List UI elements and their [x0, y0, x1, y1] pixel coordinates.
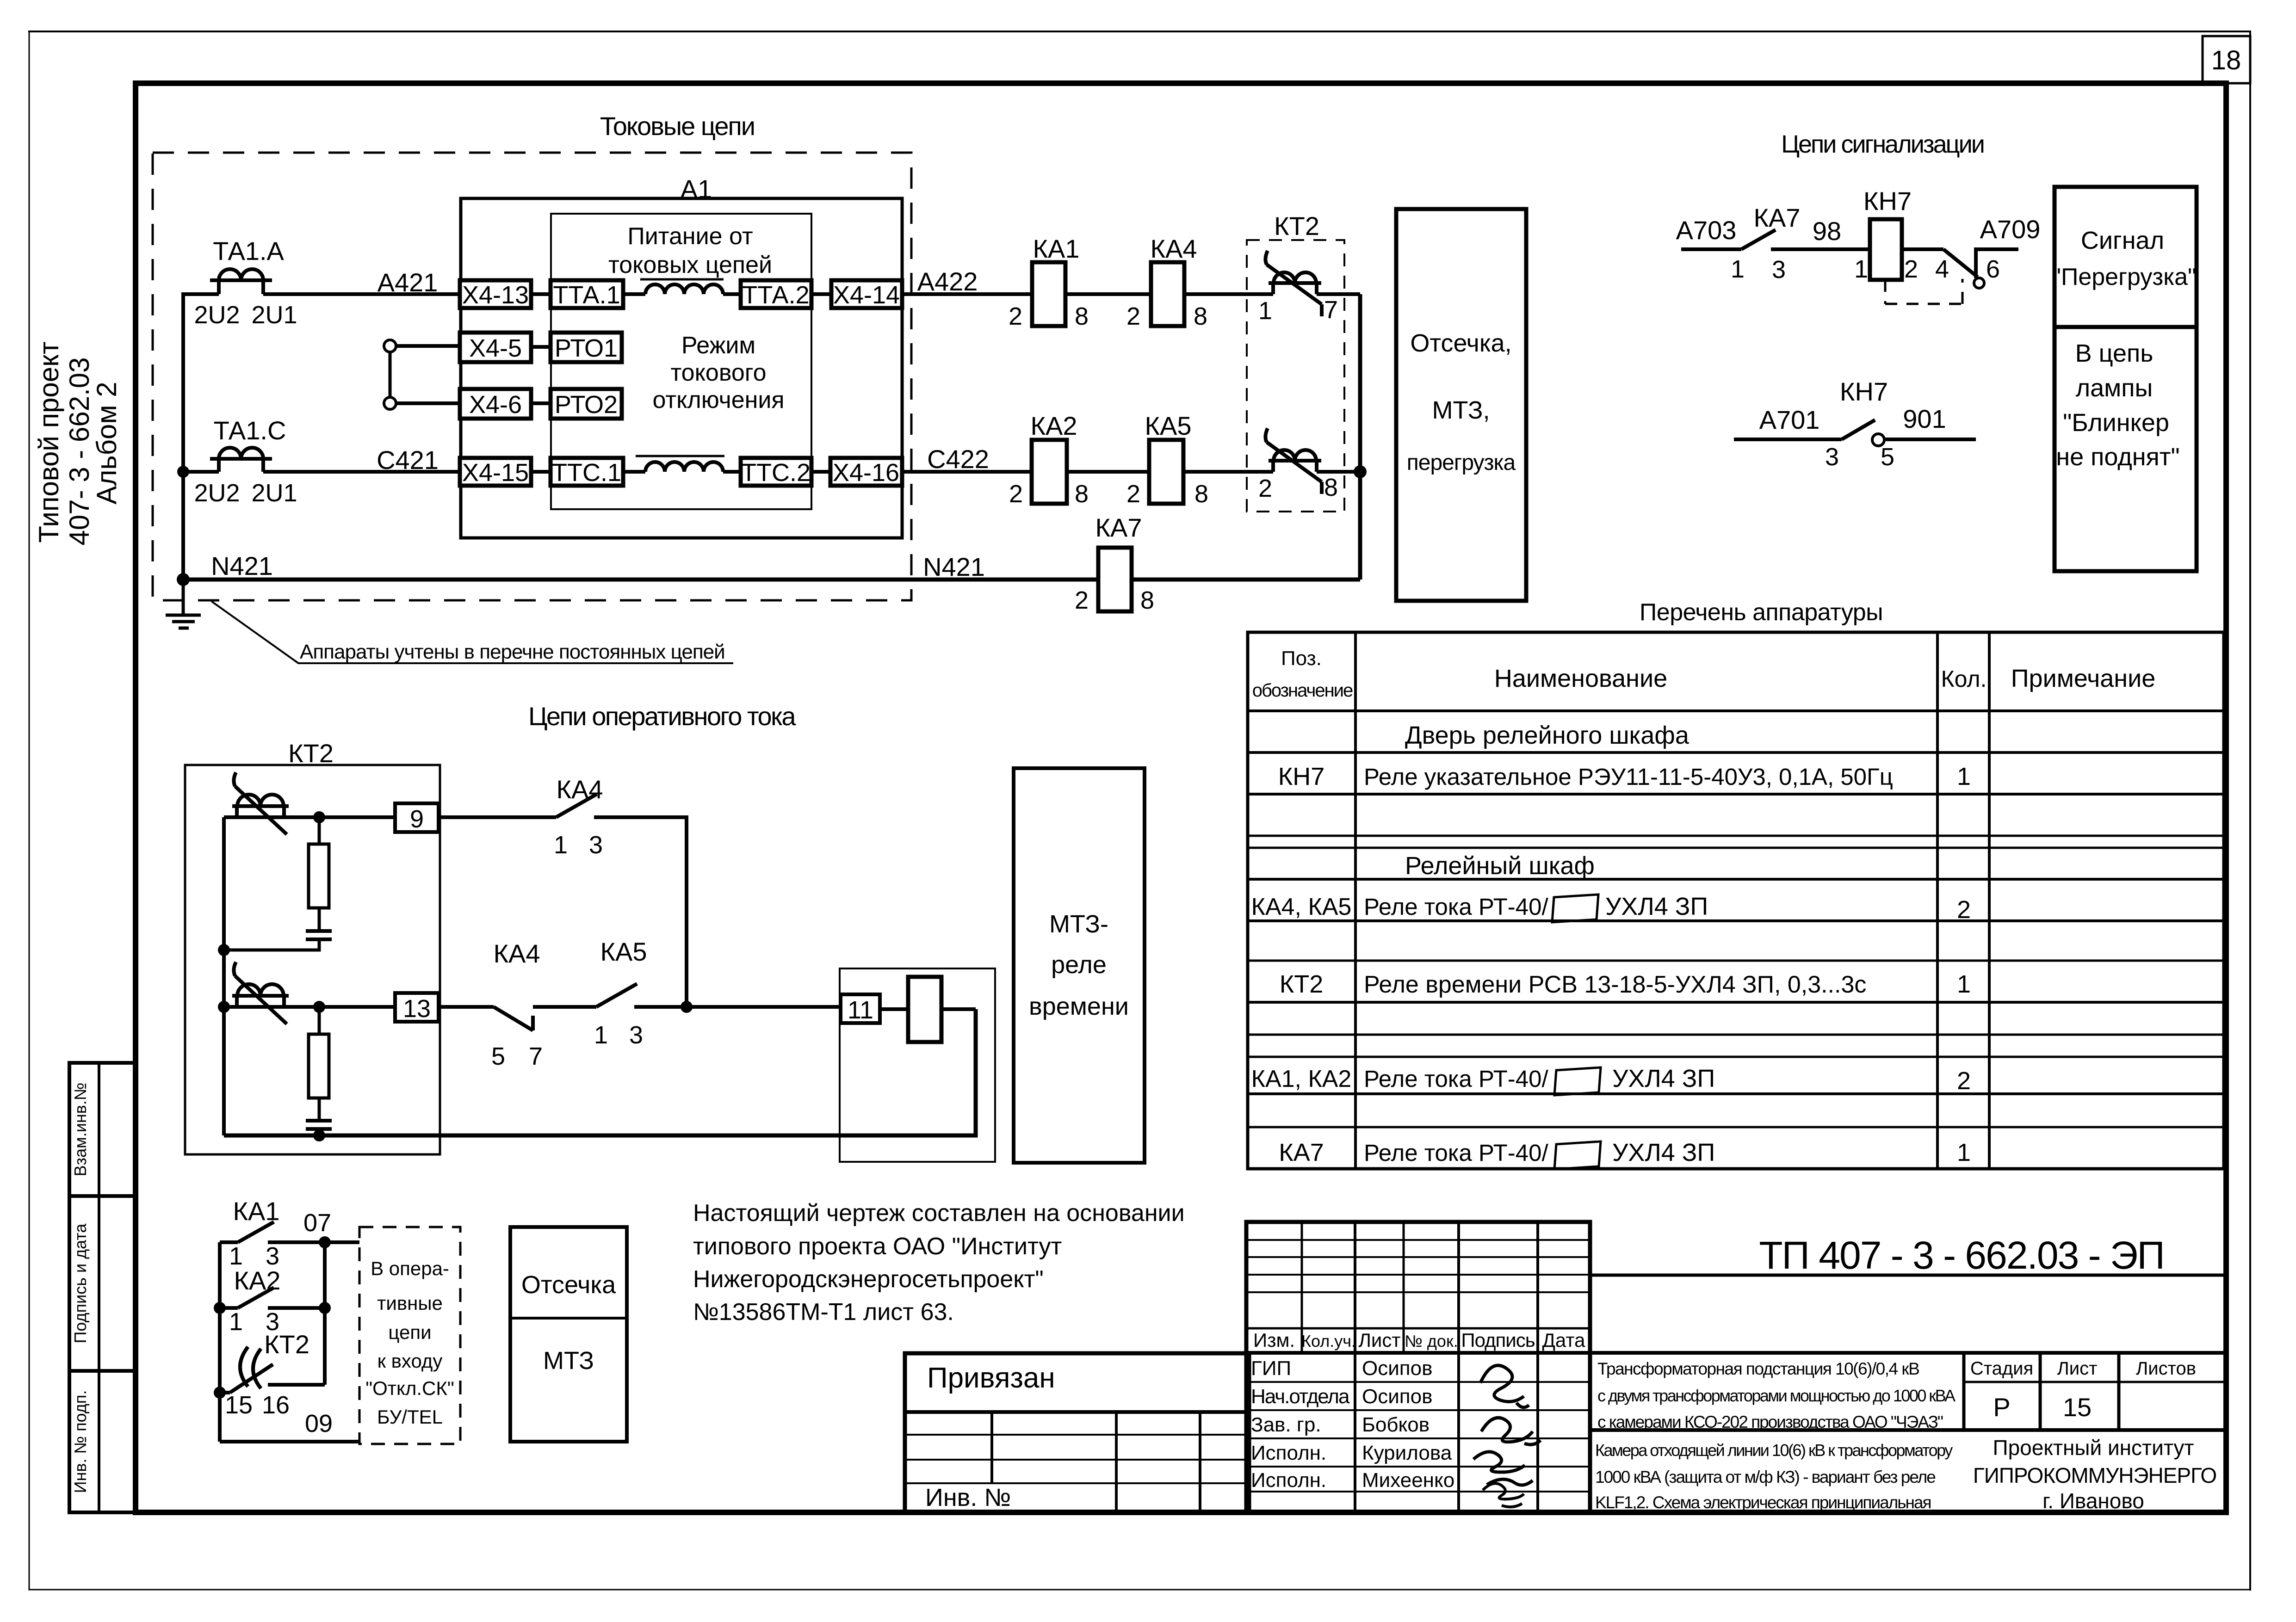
svg-text:ТТА.2: ТТА.2 [742, 281, 809, 309]
svg-text:Р: Р [1993, 1393, 2010, 1422]
svg-text:Лист: Лист [1358, 1329, 1400, 1351]
svg-text:к входу: к входу [378, 1350, 443, 1372]
svg-text:9: 9 [410, 805, 424, 833]
stage table columns [1590, 1353, 2226, 1430]
svg-text:В опера-: В опера- [371, 1258, 449, 1279]
wire KA4 to KT2 contact A [1184, 292, 1273, 296]
terminal X4-13 [460, 280, 531, 308]
wire C2 to return wire [318, 1129, 321, 1135]
sheet number box top right [2203, 36, 2250, 83]
svg-text:4: 4 [1935, 255, 1949, 283]
dashed boundary box of current circuits [153, 153, 911, 600]
svg-text:типового проекта ОАО "Институт: типового проекта ОАО "Институт [693, 1233, 1062, 1260]
svg-text:2: 2 [1009, 480, 1023, 508]
changeover contact blade [1943, 249, 1978, 277]
svg-text:6: 6 [1986, 255, 2000, 283]
wire jumper to X4-6 [396, 401, 460, 405]
capacitor C1 [306, 931, 332, 939]
svg-text:98: 98 [1813, 216, 1841, 246]
svg-text:В цепь: В цепь [2075, 339, 2154, 367]
svg-text:Привязан: Привязан [927, 1362, 1055, 1394]
svg-text:Режим: Режим [681, 332, 755, 359]
svg-text:Инв. №: Инв. № [925, 1484, 1011, 1511]
relay coil KA5 [1149, 440, 1183, 504]
wire KA2 to KA5 [1067, 470, 1149, 474]
svg-text:2U1: 2U1 [251, 301, 297, 329]
wire A422 [902, 292, 1032, 296]
svg-text:КТ2: КТ2 [1274, 211, 1319, 241]
current transformer TA1.A [210, 269, 272, 294]
node dot on return wire [313, 1129, 325, 1141]
svg-text:Проектный институт: Проектный институт [1993, 1436, 2194, 1460]
svg-text:18: 18 [2211, 45, 2241, 75]
svg-text:КА1, КА2: КА1, КА2 [1251, 1066, 1352, 1092]
node dot N421 at ground riser [177, 573, 190, 586]
svg-text:УХЛ4 ЗП: УХЛ4 ЗП [1612, 1065, 1715, 1092]
coil TTA (phase A winding) [645, 284, 723, 294]
svg-text:Реле указательное РЭУ11-11-5-4: Реле указательное РЭУ11-11-5-40У3, 0,1А,… [1364, 764, 1893, 790]
function box Отсечка / МТЗ [510, 1227, 627, 1442]
wire 98 [1771, 247, 1870, 251]
wire KA5 to KT2 contact C [1183, 470, 1273, 474]
wire C421 [263, 470, 460, 474]
svg-text:ТТС.2: ТТС.2 [741, 459, 811, 487]
svg-text:"Блинкер: "Блинкер [2063, 409, 2169, 437]
svg-text:1: 1 [554, 831, 568, 859]
svg-text:Кол.: Кол. [1941, 666, 1987, 692]
svg-text:1: 1 [1957, 970, 1971, 998]
svg-text:3: 3 [629, 1021, 643, 1049]
svg-text:3: 3 [1825, 443, 1839, 471]
wire corner left of TA1.A [183, 294, 219, 580]
svg-text:ТТА.1: ТТА.1 [553, 281, 620, 309]
svg-text:перегрузка: перегрузка [1407, 450, 1516, 475]
svg-text:№13586ТМ-Т1 лист 63.: №13586ТМ-Т1 лист 63. [693, 1299, 954, 1326]
svg-text:ТА1.С: ТА1.С [214, 416, 286, 445]
svg-text:Настоящий чертеж составлен на: Настоящий чертеж составлен на основании [693, 1200, 1185, 1227]
svg-text:Стадия: Стадия [1970, 1358, 2033, 1379]
svg-text:токовых цепей: токовых цепей [608, 252, 772, 278]
svg-text:Отсечка,: Отсечка, [1410, 329, 1511, 357]
callout line to note [211, 601, 733, 663]
svg-text:Подпись: Подпись [1461, 1329, 1535, 1351]
contact KH7 circle row2 [1872, 434, 1884, 446]
svg-text:1000 кВА (защита от м/ф КЗ) -: 1000 кВА (защита от м/ф КЗ) - вариант бе… [1595, 1468, 1935, 1486]
terminal X4-6 [460, 389, 531, 419]
svg-text:РТО2: РТО2 [555, 391, 618, 419]
svg-text:Дата: Дата [1542, 1329, 1585, 1351]
svg-text:7: 7 [1324, 296, 1338, 324]
node dot KA2 right [319, 1302, 331, 1314]
attached stamp box Привязан [905, 1353, 1249, 1512]
KT2 time contact in phase A [1265, 251, 1322, 316]
svg-text:Камера отходящей линии 10(6) к: Камера отходящей линии 10(6) кВ к трансф… [1595, 1441, 1953, 1460]
terminal X4-14 [831, 280, 902, 308]
wire A701 [1734, 438, 1842, 441]
terminal TTA.1 [551, 280, 623, 308]
wire C1 to left vertical [224, 939, 319, 950]
svg-text:ТТС.1: ТТС.1 [552, 459, 621, 487]
function box МТЗ-реле времени [1014, 768, 1145, 1163]
svg-text:КТ2: КТ2 [1280, 970, 1323, 998]
KT2 dashed box (contacts) [1247, 240, 1344, 512]
svg-text:3: 3 [1772, 256, 1786, 284]
svg-text:Релейный шкаф: Релейный шкаф [1405, 852, 1595, 880]
node dot at vertical wire C [177, 466, 189, 478]
svg-text:1: 1 [1957, 763, 1971, 790]
terminal X4-5 [460, 333, 531, 362]
wire coil C to TTC.2 [723, 470, 741, 474]
contact KA5 blade [596, 984, 637, 1007]
coil TTC (phase C winding) [645, 462, 723, 472]
svg-text:Михеенко: Михеенко [1362, 1469, 1454, 1492]
svg-text:Альбом 2: Альбом 2 [91, 382, 122, 504]
svg-text:ГИП: ГИП [1251, 1357, 1291, 1380]
svg-text:Отсечка: Отсечка [521, 1271, 616, 1299]
svg-text:Цепи сигнализации: Цепи сигнализации [1781, 130, 1984, 158]
wire A709 [1976, 249, 2018, 278]
node dot KT2 left [214, 1387, 226, 1399]
svg-text:отключения: отключения [652, 387, 784, 413]
contact KA4 blade (9 row) [556, 794, 597, 817]
wire jumper to X4-5 [396, 344, 460, 348]
right vertical wire of group [323, 1242, 327, 1385]
svg-text:КА7: КА7 [1279, 1139, 1324, 1166]
svg-text:С421: С421 [377, 445, 439, 475]
wire X4-6 to PTO2 [531, 401, 551, 405]
svg-text:Бобков: Бобков [1362, 1413, 1430, 1436]
person row lines [1246, 1381, 1590, 1383]
svg-text:МТЗ: МТЗ [543, 1347, 594, 1375]
node dot contact2 left [218, 1001, 230, 1013]
table row lines [1248, 709, 2224, 712]
svg-text:15: 15 [2063, 1393, 2092, 1422]
svg-text:БУ/TEL: БУ/TEL [377, 1406, 443, 1428]
terminal 11 [841, 994, 880, 1023]
svg-text:А709: А709 [1980, 215, 2041, 244]
svg-text:Х4-5: Х4-5 [469, 334, 522, 362]
contact KA7 blade [1741, 230, 1776, 249]
svg-text:Нижегородскэнергосетьпроект": Нижегородскэнергосетьпроект" [693, 1266, 1044, 1293]
svg-text:Х4-16: Х4-16 [833, 459, 899, 487]
svg-text:Исполн.: Исполн. [1251, 1442, 1326, 1464]
node dot RC branch bottom [313, 1001, 325, 1013]
wire KT2 coil to return [941, 1007, 976, 1011]
svg-text:Типовой проект: Типовой проект [33, 341, 64, 543]
svg-text:тивные: тивные [377, 1292, 443, 1314]
svg-text:г. Иваново: г. Иваново [2042, 1489, 2144, 1513]
underline under токовых цепей [640, 278, 724, 281]
svg-text:КА1: КА1 [1033, 234, 1079, 263]
svg-text:ГИПРОКОММУНЭНЕРГО: ГИПРОКОММУНЭНЕРГО [1973, 1463, 2216, 1487]
signature squiggle 4 [1483, 1483, 1524, 1507]
svg-text:Сигнал: Сигнал [2081, 227, 2164, 254]
svg-text:цепи: цепи [388, 1321, 431, 1343]
relay KH7 coil [1870, 219, 1902, 280]
signature squiggle 2 [1481, 1418, 1541, 1444]
changeover contact circle [1974, 278, 1984, 288]
function box В цепь лампы Блинкер не поднят [2055, 327, 2197, 571]
change table row lines [1246, 1239, 1590, 1241]
svg-text:Подпись и дата: Подпись и дата [71, 1223, 90, 1344]
svg-text:1: 1 [1957, 1139, 1971, 1166]
wire X4-13 to TTA.1 [531, 292, 551, 296]
svg-text:13: 13 [403, 995, 431, 1023]
svg-text:КА2: КА2 [1030, 411, 1077, 440]
wire A703 [1681, 247, 1741, 251]
terminal 13 [395, 993, 439, 1022]
svg-text:Реле времени РСВ 13-18-5-УХЛ4: Реле времени РСВ 13-18-5-УХЛ4 ЗП, 0,3...… [1364, 971, 1866, 998]
svg-text:2: 2 [1258, 475, 1272, 502]
contact KA2 blade [220, 1288, 325, 1308]
svg-text:15: 15 [225, 1391, 253, 1419]
node dot RC branch top [313, 811, 325, 823]
svg-text:Наименование: Наименование [1494, 665, 1667, 692]
change table columns full [1354, 1222, 1356, 1512]
svg-text:Кол.уч.: Кол.уч. [1301, 1332, 1356, 1351]
svg-text:1: 1 [1731, 255, 1745, 283]
wire 09 bottom [220, 1440, 359, 1443]
KT2 internal contact 2 (time contact) [232, 962, 289, 1024]
svg-text:8: 8 [1324, 474, 1338, 501]
jumper circles terminal bottom [384, 397, 396, 409]
header bottom line full width [1246, 1351, 2226, 1355]
svg-text:Курилова: Курилова [1362, 1442, 1452, 1464]
contact KA4 blade (13 row, break) [494, 1007, 533, 1030]
svg-text:Дверь релейного шкафа: Дверь релейного шкафа [1405, 722, 1690, 749]
KT2 time contact in phase C [1265, 428, 1322, 494]
KT2 left vertical wire [222, 817, 226, 1135]
svg-text:токового: токового [670, 359, 766, 386]
sidebar stamp boxes left [69, 1063, 136, 1512]
svg-text:5: 5 [1881, 443, 1894, 471]
function box Сигнал Перегрузка [2055, 187, 2197, 327]
svg-text:КА7: КА7 [1095, 513, 1142, 542]
svg-text:КА7: КА7 [1753, 203, 1800, 232]
svg-text:Х4-14: Х4-14 [833, 281, 900, 309]
svg-text:КТ2: КТ2 [264, 1330, 309, 1359]
svg-text:Токовые цепи: Токовые цепи [600, 111, 755, 141]
svg-text:Осипов: Осипов [1362, 1385, 1432, 1408]
wire TA1.C left lead to vertical [183, 470, 219, 474]
wire KA4 contact to corner [594, 817, 687, 1007]
ground symbol [166, 580, 201, 628]
svg-text:5: 5 [491, 1042, 505, 1070]
node dot at C collector [1354, 465, 1367, 478]
svg-text:Осипов: Осипов [1362, 1357, 1432, 1380]
svg-text:Примечание: Примечание [2011, 665, 2156, 692]
svg-text:А703: А703 [1676, 216, 1737, 245]
svg-text:не поднят": не поднят" [2056, 443, 2179, 471]
svg-text:8: 8 [1140, 586, 1154, 614]
svg-text:КА5: КА5 [1145, 411, 1191, 440]
KT2 internal contact 1 (time contact) [232, 772, 289, 834]
svg-text:Зав. гр.: Зав. гр. [1251, 1413, 1321, 1436]
outer thin border bottom [29, 1589, 2250, 1591]
svg-text:2: 2 [1957, 896, 1971, 924]
outer thin border right [2249, 31, 2251, 1590]
svg-text:КА4: КА4 [493, 939, 540, 968]
terminal TTA.2 [741, 280, 811, 308]
svg-text:реле: реле [1051, 951, 1107, 979]
jumper circles terminal top [384, 340, 396, 352]
resistor R1 branch wire [318, 817, 321, 844]
svg-text:Реле тока РТ-40/: Реле тока РТ-40/ [1364, 894, 1548, 920]
svg-text:2: 2 [1126, 480, 1140, 508]
relay coil KA7 [1098, 548, 1132, 611]
svg-text:КА2: КА2 [234, 1266, 280, 1295]
svg-text:Цепи оперативного тока: Цепи оперативного тока [528, 702, 796, 731]
svg-text:09: 09 [305, 1410, 333, 1437]
svg-text:КН7: КН7 [1863, 186, 1912, 216]
node dot 07 [319, 1236, 331, 1248]
node dot KA4 branch join [681, 1001, 693, 1013]
function box Отсечка МТЗ перегрузка [1396, 209, 1526, 601]
svg-text:2U2: 2U2 [194, 301, 240, 329]
svg-text:8: 8 [1075, 302, 1089, 330]
terminal TTC.2 [741, 458, 811, 486]
wire 13 to KA4 contact 2 [439, 1005, 494, 1009]
wire KA1 to KA4 [1065, 292, 1151, 296]
svg-text:KLF1,2. Схема электрическая пр: KLF1,2. Схема электрическая принципиальн… [1595, 1493, 1931, 1512]
wire A421 [263, 292, 460, 296]
wire contact1 to terminal 9 [224, 815, 395, 819]
resistor R1 [309, 844, 329, 908]
svg-text:16: 16 [262, 1391, 290, 1419]
wire KT2 contact A to right vertical [1317, 292, 1360, 296]
wire KA4-2 to KA5 contact [533, 1005, 596, 1009]
svg-text:07: 07 [303, 1209, 331, 1237]
svg-text:7: 7 [529, 1042, 543, 1070]
svg-text:А701: А701 [1759, 405, 1820, 434]
svg-text:901: 901 [1903, 404, 1946, 433]
svg-text:КН7: КН7 [1840, 377, 1888, 406]
KT2 coil [908, 977, 941, 1042]
svg-text:УХЛ4 ЗП: УХЛ4 ЗП [1605, 893, 1708, 920]
relay coil KA1 [1032, 262, 1065, 326]
svg-text:2: 2 [1075, 586, 1089, 614]
wire KA5 to node [634, 1005, 841, 1009]
svg-text:8: 8 [1075, 480, 1089, 508]
svg-text:Изм.: Изм. [1253, 1329, 1295, 1351]
svg-text:"Откл.СК": "Откл.СК" [365, 1377, 454, 1399]
terminal TTC.1 [551, 458, 623, 486]
svg-text:N421: N421 [211, 551, 273, 580]
terminal PTO1 [551, 333, 622, 362]
contact KT2 time blade [220, 1347, 325, 1393]
svg-text:ТА1.А: ТА1.А [213, 236, 284, 265]
svg-text:8: 8 [1194, 480, 1208, 508]
wire KH7 to changeover [1902, 247, 1943, 251]
svg-text:лампы: лампы [2076, 374, 2153, 402]
svg-text:N421: N421 [923, 552, 985, 581]
wire N421 [183, 578, 1360, 582]
wire X4-5 to PTO1 [531, 345, 551, 349]
svg-text:МТЗ-: МТЗ- [1049, 910, 1108, 938]
svg-text:Лист: Лист [2057, 1358, 2098, 1379]
svg-text:3: 3 [589, 831, 603, 859]
wire R2 to C2 [318, 1098, 321, 1121]
svg-text:КА4: КА4 [556, 775, 603, 804]
wire contact2 to terminal 13 [224, 1005, 395, 1009]
svg-text:УХЛ4 ЗП: УХЛ4 ЗП [1612, 1139, 1715, 1166]
svg-text:с двумя трансформаторами мощно: с двумя трансформаторами мощностью до 10… [1597, 1386, 1956, 1405]
svg-text:Перечень аппаратуры: Перечень аппаратуры [1640, 599, 1883, 626]
thin box around 11 and coil [840, 968, 995, 1162]
svg-text:обозначение: обозначение [1252, 680, 1353, 701]
wire 11 to KT2 coil [880, 1007, 908, 1011]
svg-text:1: 1 [1854, 255, 1868, 283]
change table columns upper [1301, 1222, 1303, 1353]
wire coil A to TTA.2 [723, 292, 741, 296]
terminal 9 [395, 803, 439, 832]
dashed box В оперативные цепи [359, 1227, 460, 1444]
svg-text:Аппараты учтены в перечне пост: Аппараты учтены в перечне постоянных цеп… [300, 641, 725, 663]
node dot KA2 left [214, 1302, 226, 1314]
resistor R2 [309, 1034, 329, 1098]
svg-text:КА4, КА5: КА4, КА5 [1251, 894, 1352, 920]
return wire bottom [224, 1009, 976, 1135]
left vertical wire of group [218, 1242, 222, 1442]
svg-text:11: 11 [848, 996, 873, 1024]
svg-text:С422: С422 [927, 444, 989, 474]
svg-text:Листов: Листов [2136, 1358, 2196, 1379]
svg-text:8: 8 [1194, 302, 1207, 330]
wire 9 to KA4 contact [439, 815, 556, 819]
table column lines [1354, 632, 1357, 1169]
KT2 relay block box [185, 765, 440, 1154]
wire C422 [902, 470, 1032, 474]
dashed mechanical link KH7 [1885, 279, 1962, 304]
wire TTA.2 to X4-14 [811, 292, 831, 296]
svg-text:2: 2 [1904, 255, 1918, 283]
svg-text:Х4-6: Х4-6 [469, 391, 522, 419]
overline above coil C [636, 455, 724, 457]
svg-text:ТП 407 - 3 - 662.03 - ЭП: ТП 407 - 3 - 662.03 - ЭП [1759, 1233, 2164, 1277]
svg-text:2U1: 2U1 [251, 479, 297, 507]
svg-text:Исполн.: Исполн. [1251, 1469, 1326, 1492]
relay coil KA2 [1032, 440, 1067, 504]
svg-text:А421: А421 [378, 268, 438, 297]
svg-text:2: 2 [1957, 1067, 1971, 1095]
right vertical collector wire [1358, 294, 1362, 580]
svg-text:Х4-13: Х4-13 [462, 281, 529, 309]
contact KH7 blade row2 [1842, 420, 1875, 439]
svg-text:1: 1 [229, 1308, 243, 1336]
svg-text:МТЗ,: МТЗ, [1432, 396, 1490, 424]
signature squiggle 1 [1480, 1365, 1529, 1407]
svg-text:РТО1: РТО1 [555, 334, 618, 362]
outer thin border top [29, 31, 2250, 32]
svg-text:Поз.: Поз. [1281, 647, 1322, 670]
current transformer TA1.C [210, 448, 272, 472]
svg-text:Нач.отдела: Нач.отдела [1251, 1385, 1350, 1408]
wire TTC.1 to coil C [623, 470, 645, 474]
terminal X4-15 [460, 458, 531, 486]
wire 901 [1885, 438, 1976, 441]
wire X4-15 to TTC.1 [531, 470, 551, 474]
wire TTC.2 to X4-16 [811, 470, 830, 474]
svg-text:КА4: КА4 [1150, 234, 1197, 263]
svg-text:"Перегрузка": "Перегрузка" [2052, 264, 2196, 290]
block A1 box [461, 198, 902, 538]
svg-text:КТ2: КТ2 [288, 739, 334, 768]
wire R1 to C1 [318, 908, 321, 931]
svg-text:КА5: КА5 [600, 937, 647, 966]
table outer box [1248, 632, 2224, 1169]
inner box of A1 [551, 214, 811, 509]
svg-text:А422: А422 [917, 267, 978, 296]
